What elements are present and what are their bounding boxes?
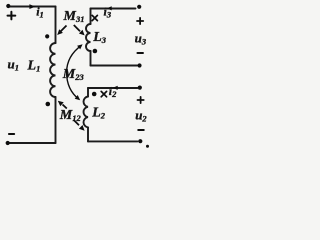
wire bottom-left horizontal (L1 bottom lead) (8, 142, 56, 144)
plus sign port2 (138, 97, 144, 103)
M23 arrowhead top (77, 44, 83, 49)
terminal dot mid-right (port 3 -) (137, 63, 141, 67)
M31 arrow to L1 (57, 26, 66, 36)
svg-text:M23: M23 (62, 67, 85, 82)
terminal dot bottom-right (port 2 -) (138, 139, 142, 143)
minus sign port1 (9, 133, 14, 135)
terminal dot bottom-left (port 1 -) (6, 141, 10, 145)
minus sign port2 (138, 129, 144, 131)
M12 arrow to L2 (74, 120, 85, 131)
plus sign port1 (8, 12, 16, 20)
inductor L1 coil (50, 43, 55, 97)
svg-text:L2: L2 (91, 105, 106, 120)
M12 arrow to L1 (58, 101, 67, 109)
svg-text:L1: L1 (27, 59, 41, 74)
minus sign port3 (137, 52, 143, 54)
stray ink dot (146, 145, 149, 148)
wire top-left horizontal (L1 top lead) (8, 6, 55, 8)
wire L3 vertical top (90, 9, 92, 25)
current arrow i3 (107, 6, 112, 10)
terminal dot right (port 2 +) (138, 86, 142, 90)
polarity dot L2 (92, 92, 97, 97)
wire L3 bottom horizontal lead (91, 65, 138, 67)
polarity cross L3 (92, 15, 97, 20)
wire L2 vertical bottom (87, 127, 89, 141)
wire L1 vertical bottom (55, 97, 57, 143)
svg-text:L3: L3 (92, 30, 107, 45)
wire L2 bottom horizontal lead (88, 140, 138, 142)
svg-text:M12: M12 (59, 108, 82, 123)
wire L2 vertical top (87, 88, 89, 97)
polarity dot L1 bottom (46, 102, 51, 107)
svg-text:M31: M31 (63, 9, 85, 24)
current arrow i1 (29, 4, 35, 9)
wire L2 top horizontal lead (88, 87, 138, 89)
polarity dot L3 bottom (93, 49, 98, 54)
svg-text:u1: u1 (8, 57, 19, 73)
polarity dot L1 top (45, 34, 49, 38)
M23 coupling arc (67, 45, 82, 99)
terminal dot top-left (port 1 +) (6, 4, 10, 8)
M31 arrow to L3 (74, 25, 85, 35)
wire L1 vertical top (55, 7, 57, 44)
svg-text:u3: u3 (135, 30, 147, 46)
current arrow i2 (113, 86, 118, 90)
terminal dot top-right (port 3 +) (137, 5, 141, 9)
wire L3 vertical bottom (90, 51, 92, 66)
M23 arrowhead bottom (75, 95, 81, 100)
inductor L2 coil (84, 97, 88, 128)
polarity cross L2 (101, 91, 106, 96)
svg-text:u2: u2 (135, 107, 147, 123)
svg-text:i2: i2 (109, 84, 117, 99)
svg-text:i3: i3 (104, 4, 112, 19)
inductor L3 coil (86, 24, 91, 51)
plus sign port3 (137, 18, 143, 24)
wire L3 top horizontal lead (91, 8, 136, 10)
